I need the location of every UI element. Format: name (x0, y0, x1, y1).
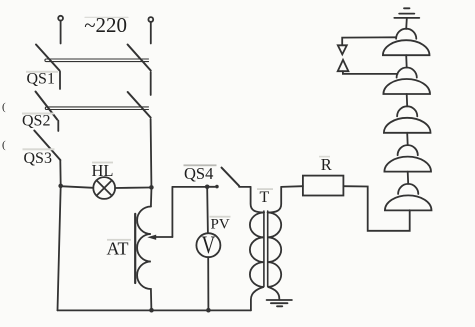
insulator disc 3 (384, 106, 431, 133)
spark gap electrode lower (338, 60, 349, 71)
transformer T core bars (264, 211, 268, 287)
label T (257, 188, 273, 206)
autotransformer AT core bar (134, 214, 136, 283)
autotransformer AT winding (137, 207, 151, 311)
transformer T secondary winding (268, 213, 282, 300)
switch QS2 (36, 92, 152, 186)
insulator disc 5 (385, 184, 432, 211)
svg-text:QS2: QS2 (22, 112, 50, 129)
terminal right (148, 17, 153, 43)
svg-text:HL: HL (92, 161, 114, 180)
transformer T primary lead (251, 187, 264, 213)
resistor R (303, 176, 344, 196)
wire PV bottom (207, 257, 209, 310)
wire tap to node (172, 186, 205, 188)
wire node to QS4 contact (209, 186, 214, 188)
svg-text:(: ( (2, 139, 6, 151)
svg-text:QS4: QS4 (184, 164, 213, 183)
insulator disc 4 (384, 145, 431, 172)
autotransformer AT tap arrow (147, 235, 172, 240)
wire T to R (281, 185, 303, 188)
switch QS3 (34, 131, 60, 161)
wire HL left (63, 186, 93, 188)
label QS2 (22, 112, 54, 129)
ground under T secondary (267, 300, 292, 306)
label QS1 (26, 71, 58, 88)
wire R to insulator string (343, 186, 409, 231)
switch QS1 (36, 45, 151, 96)
svg-text:QS1: QS1 (27, 71, 55, 88)
svg-text:QS3: QS3 (24, 150, 52, 167)
svg-text:PV: PV (211, 216, 230, 232)
ground at top of string (inverted) (394, 8, 419, 29)
node junction left of HL (58, 184, 63, 189)
svg-text:V: V (201, 231, 215, 259)
label HL (92, 161, 114, 180)
node tap junction (205, 185, 210, 190)
spark gap electrode upper (338, 45, 347, 54)
voltmeter PV (196, 231, 220, 259)
lamp HL (93, 177, 115, 199)
terminal left (58, 16, 63, 44)
label AT (107, 238, 132, 258)
label QS4 (184, 164, 217, 183)
link disc 2-3 (406, 94, 409, 106)
link disc 1-2 (405, 55, 408, 67)
wire HL right (115, 187, 149, 190)
link disc 3-4 (406, 133, 409, 145)
wire QS4 to T (239, 186, 251, 188)
wire tap up (171, 187, 173, 237)
transformer T secondary lead (268, 187, 282, 213)
svg-text:(: ( (2, 101, 6, 113)
link disc 4-5 (407, 172, 410, 184)
node junction right of HL (149, 185, 154, 190)
svg-text:T: T (260, 189, 270, 206)
svg-text:~220: ~220 (84, 13, 127, 37)
spark gap wire bottom (343, 71, 398, 74)
svg-text:AT: AT (107, 238, 129, 258)
bottom rail wire (58, 309, 251, 311)
wire right column into AT (150, 190, 153, 207)
insulator disc 2 (383, 67, 430, 94)
node AT bottom on rail (149, 308, 154, 313)
label QS3 (23, 148, 55, 167)
wire left column down (59, 160, 61, 186)
svg-text:R: R (321, 155, 332, 174)
voltmeter PV wire top (206, 189, 209, 233)
label R (319, 155, 332, 174)
insulator disc 1 (383, 29, 430, 56)
spark gap wire top (342, 37, 396, 45)
label ~220 (84, 13, 128, 37)
switch QS4 (215, 168, 239, 189)
label PV (210, 216, 231, 233)
node PV bottom on rail (206, 308, 211, 313)
transformer T primary winding (250, 213, 264, 311)
